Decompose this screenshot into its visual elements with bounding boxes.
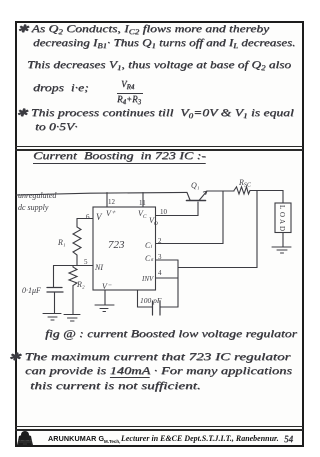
op-amp U1 723 IC box bbox=[93, 207, 156, 290]
footer rules bbox=[15, 426, 303, 427]
heading bbox=[33, 150, 206, 164]
resistor R2 bbox=[69, 266, 77, 315]
pin 12 label bbox=[108, 198, 116, 206]
ground load bbox=[272, 247, 291, 253]
wire top supply rail bbox=[16, 192, 187, 195]
transistor Q1 bbox=[187, 191, 208, 201]
resistor Rsc bbox=[234, 187, 250, 194]
footer text bbox=[48, 434, 104, 443]
wire cap to ground bbox=[54, 292, 56, 313]
wire Cs sense to load side of Rsc bbox=[178, 191, 257, 268]
handwritten paragraph top bbox=[17, 23, 269, 36]
bottom paragraph bbox=[8, 351, 290, 363]
pin 6 label bbox=[86, 213, 90, 221]
wire Rsc to load corner bbox=[250, 191, 283, 204]
pin CL label bbox=[145, 241, 152, 250]
ground cap bbox=[43, 314, 61, 321]
0.1uF label bbox=[22, 286, 41, 295]
wire pin13 comp stub bbox=[138, 290, 153, 307]
ground R2 bbox=[64, 315, 80, 322]
pin Vo label bbox=[149, 216, 158, 227]
pin 5 label bbox=[84, 258, 88, 266]
wire NI stub bbox=[77, 265, 93, 267]
wire CL sense to emitter bbox=[156, 191, 224, 244]
pin 3 label bbox=[158, 253, 162, 261]
resistor R1 bbox=[73, 219, 81, 266]
pin V- label bbox=[102, 282, 112, 291]
wire pin6 stub bbox=[77, 218, 93, 220]
R1 label bbox=[57, 238, 66, 247]
fraction VR4/(R4+R3) bbox=[121, 79, 134, 91]
R2 label bbox=[76, 280, 85, 289]
wire NI node left bbox=[54, 265, 78, 267]
pin 10 label bbox=[160, 208, 168, 216]
capacitor 100pF bbox=[153, 301, 161, 315]
node label: unregulated dc supply bbox=[18, 191, 57, 212]
pin 2 label bbox=[158, 237, 162, 245]
pin Cs label bbox=[145, 254, 154, 263]
full width double rule bbox=[15, 146, 303, 147]
pin INV label bbox=[141, 275, 154, 283]
wire pin12 stub bbox=[106, 193, 108, 208]
wire INV stub bbox=[156, 277, 179, 279]
wire to cap C1 bbox=[53, 266, 55, 288]
Q1 label bbox=[191, 181, 200, 190]
wire pin11 stub bbox=[142, 193, 144, 208]
100pF label bbox=[140, 296, 162, 305]
pin 4 label bbox=[158, 269, 162, 277]
pin V+ label bbox=[106, 209, 116, 218]
wire V- to ground bbox=[104, 290, 106, 305]
load box bbox=[275, 203, 291, 233]
fig caption bbox=[45, 329, 297, 340]
wire Q1 emitter to Rsc bbox=[207, 190, 234, 192]
Rsc label bbox=[238, 178, 252, 189]
capacitor 0.1uF bbox=[47, 288, 63, 293]
wire Cs vertical junction bbox=[177, 260, 179, 307]
wire pin10 to Q1 base bbox=[156, 202, 199, 216]
wire load to ground bbox=[282, 233, 284, 247]
pin Vc label bbox=[138, 209, 147, 220]
pin V label bbox=[96, 212, 103, 222]
pin 11 label bbox=[139, 199, 146, 207]
ground V- bbox=[95, 305, 114, 312]
LOAD label bbox=[278, 205, 286, 231]
pin NI label bbox=[94, 263, 103, 272]
wire Cs stub bbox=[156, 259, 179, 261]
723 label bbox=[108, 239, 125, 251]
wire capacitor to INV net bbox=[160, 306, 178, 308]
